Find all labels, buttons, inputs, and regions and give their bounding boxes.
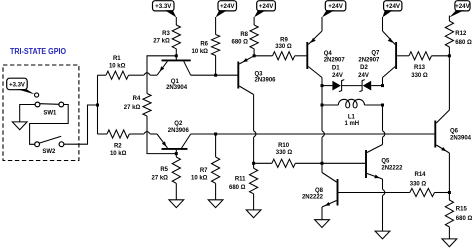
resistor R6 [212,35,220,56]
svg-text:R8: R8 [240,32,248,38]
node R6 bottom junction [214,74,217,77]
wire D2 anode [371,85,382,87]
wire R15 bottom [448,227,450,239]
wire Q3 collector down to R10 node (hops W2) [253,95,255,131]
wire right rail L1 to Q5 collector (hops W2) [382,105,384,131]
resistor R10 [272,159,295,167]
svg-text:2N3904: 2N3904 [450,135,472,141]
wire Q5 emitter to ground (hops R14 wire) [382,179,384,189]
svg-text:10 kΩ: 10 kΩ [191,176,208,182]
svg-text:+24V: +24V [259,3,274,10]
wire left rail D1 to L1 [321,86,323,105]
svg-text:+24V: +24V [328,3,343,10]
resistor R15 [445,200,453,227]
node Q6 emitter junction [448,191,451,194]
svg-text:Q2: Q2 [174,121,183,127]
svg-text:R6: R6 [200,41,208,47]
node L1 left junction [321,104,324,107]
svg-text:D1: D1 [332,66,340,72]
wire L1 right [365,104,383,106]
transistor Q1 bar [162,59,191,61]
wire +24V to R8 [253,17,255,25]
transistor Q2 base lead [175,150,177,154]
svg-text:+24V: +24V [455,3,470,10]
svg-text:R7: R7 [200,168,208,174]
wire left rail L1 to R10 node (hops W2) [321,105,323,131]
wire Q8 emitter to ground [321,207,323,220]
transistor Q2 emitter [157,134,168,148]
wire Q6 emitter down [448,153,450,193]
svg-text:680 Ω: 680 Ω [232,39,249,45]
transistor Q7 collector [383,67,396,78]
wire +24V to Q4 emitter [321,17,323,31]
resistor R8 [250,25,258,49]
wire R10 right [295,162,322,164]
wire R12 bottom [448,47,450,56]
svg-text:2N3904: 2N3904 [166,85,188,91]
resistor R12 [445,21,453,47]
svg-text:+24V: +24V [385,3,400,10]
svg-text:2N2907: 2N2907 [358,57,380,63]
wire R9 right to Q4 base [295,55,307,57]
ground (Q8) [315,220,330,228]
wire D1 anode [322,85,332,87]
node D2 anode junction [381,84,384,87]
svg-text:R1: R1 [113,56,121,62]
wire SW1 left to ground [20,105,35,122]
transistor Q8 bar [337,179,339,206]
svg-text:R14: R14 [414,172,426,178]
svg-text:R3: R3 [162,31,170,37]
transistor Q8 collector [322,173,337,183]
svg-text:R9: R9 [280,38,288,44]
svg-text:SW1: SW1 [43,110,57,116]
transistor Q4 bar [306,42,308,69]
power flag +24V (R12) [455,1,470,11]
ground (R15) [442,239,457,247]
transistor Q1 collector [184,61,191,75]
ground (Q5) [375,231,390,239]
svg-text:24V: 24V [332,73,343,79]
wire R7 top [215,134,217,157]
switch SW1 right contact circle [59,102,64,107]
svg-text:R4: R4 [133,96,141,102]
node R7 top junction [214,133,217,136]
wire R3 bottom [175,49,177,56]
wire R11 top [253,163,255,168]
+3.3V terminal circle [35,93,39,97]
node Q1 base junction [175,54,178,57]
svg-text:R10: R10 [278,143,290,149]
svg-text:R13: R13 [414,65,426,71]
svg-text:TRI-STATE GPIO: TRI-STATE GPIO [10,47,66,56]
wire R10 left [254,162,272,164]
svg-text:+3.3V: +3.3V [9,82,25,88]
ground (GPIO) [12,122,27,130]
wire R4 top to Q1 base junction [147,56,176,94]
svg-text:R15: R15 [456,207,468,213]
transistor Q8 emitter [322,201,337,208]
resistor R2 [107,130,129,138]
svg-text:2N2222: 2N2222 [302,194,324,200]
svg-text:SW2: SW2 [42,149,56,155]
transistor Q7 emitter [383,31,396,45]
svg-text:2N2222: 2N2222 [381,165,403,171]
resistor R11 [250,168,258,194]
wire R7 bottom [215,183,217,200]
resistor R7 [212,157,220,183]
svg-text:R5: R5 [160,167,168,173]
wire D1 cathode to D2 cathode [342,85,363,87]
svg-text:27 kΩ: 27 kΩ [152,176,169,182]
node D1 anode junction [321,84,324,87]
wire R8 bottom [253,49,255,56]
svg-text:D2: D2 [360,65,368,71]
switch SW1 lever (closed) [40,103,59,106]
wire R1 left [98,74,107,76]
wire R13 right [432,55,450,57]
wire R6 bottom [215,56,217,76]
node R12 bottom junction [448,54,451,57]
transistor Q5 bar [365,150,367,178]
svg-text:24V: 24V [358,73,369,79]
svg-text:330 Ω: 330 Ω [410,181,427,187]
wire left rail to Q8 collector [321,163,323,172]
power flag +3.3V [153,1,175,11]
wire R11 bottom [253,194,255,210]
svg-text:R2: R2 [114,144,122,150]
power flag +24V (Q7) [384,1,402,11]
resistor R9 [273,52,295,60]
node Q3 emitter junction [253,54,256,57]
wire Q8 base to R14 [339,192,410,194]
ground (R7) [208,200,223,208]
power flag +24V (R8) [257,1,276,11]
transistor Q3 bar [237,62,239,89]
svg-text:1 mH: 1 mH [344,121,359,127]
transistor Q6 bar [434,121,436,148]
wire SW2 right to GPIO node [64,105,98,144]
switch SW2 right contact circle [59,142,64,147]
wire R5 top [175,154,177,157]
transistor Q1 emitter [157,61,168,75]
switch SW1 left contact circle [35,102,40,107]
power flag +24V (R6) [218,1,237,11]
transistor Q5 emitter [367,174,383,180]
node Q2 base junction [175,152,178,155]
svg-text:10 kΩ: 10 kΩ [109,63,126,69]
wire +24V to R6 [215,17,217,35]
diode D2 (24V zener) [363,81,372,91]
wire +3.3V to R3 [175,17,177,25]
svg-text:Q8: Q8 [315,188,324,194]
wire R9 left [254,55,272,57]
wire R5 bottom [175,183,177,200]
wire R4 bottom to Q2 base junction [147,116,176,154]
svg-text:+24V: +24V [220,3,235,10]
wire Q5 base [322,162,365,164]
svg-text:27 kΩ: 27 kΩ [124,105,141,111]
tri-state gpio block dashed border [3,65,79,161]
resistor R1 [106,71,129,79]
wire left rail R1-R2 [97,75,99,134]
svg-text:Q7: Q7 [371,51,380,57]
svg-text:330 Ω: 330 Ω [275,44,292,50]
transistor Q5 collector [367,145,383,153]
node L1 right junction [381,104,384,107]
svg-text:10 kΩ: 10 kΩ [110,151,127,157]
node R10 left junction [252,162,255,165]
svg-text:330 Ω: 330 Ω [276,150,293,156]
resistor R5 [172,157,180,183]
resistor R14 [410,188,435,196]
svg-text:27 kΩ: 27 kΩ [153,38,170,44]
svg-text:Q5: Q5 [381,159,390,165]
svg-text:R11: R11 [235,177,246,183]
transistor Q1 base lead [175,56,177,60]
resistor R13 [409,52,432,60]
node Q5 base junction [321,162,324,165]
wire Q1 collector to Q3 base [191,74,238,76]
wire R2 right to Q2 emitter (hops R4 rail) [129,133,144,135]
svg-text:2N3906: 2N3906 [255,78,277,84]
transistor Q6 emitter [436,145,449,153]
transistor Q2 bar [162,148,188,150]
wire R1 right to Q1 emitter (hops R4 rail) [129,74,144,76]
svg-text:+3.3V: +3.3V [155,3,172,10]
resistor R4 [143,94,151,117]
wire Q2 collector to Q6 base [191,133,435,135]
transistor Q3 emitter [239,56,254,64]
wire SW1 right to SW2 left [30,105,69,145]
switch SW2 left contact circle [35,142,40,147]
+3.3V callout flag [7,78,28,90]
wire Q4 collector to D1 node [321,78,323,86]
wire L1 left [322,104,338,106]
svg-text:Q6: Q6 [450,129,459,135]
svg-text:R12: R12 [455,31,467,37]
inductor L1 [338,99,364,108]
transistor Q6 collector [436,110,449,123]
svg-text:10 kΩ: 10 kΩ [192,49,209,55]
power flag +24V (Q4) [325,1,346,11]
transistor Q2 collector [182,134,191,148]
transistor Q3 collector [239,86,253,95]
wire R2 left [98,133,108,135]
svg-text:2N3906: 2N3906 [168,128,190,134]
svg-text:Q4: Q4 [324,51,333,57]
wire R15 top [448,193,450,201]
wire +24V to Q7 emitter [382,17,384,31]
svg-text:680 Ω: 680 Ω [456,216,473,222]
wire +24V to R12 [448,16,450,22]
ground (R5) [169,200,184,208]
transistor Q4 emitter [308,31,322,45]
transistor Q4 collector [308,67,322,78]
switch SW2 lever (open) [39,136,61,143]
wire Q7 collector to D2 node [382,78,384,86]
svg-text:L1: L1 [348,115,356,121]
resistor R3 [172,25,180,49]
diode D1 (24V zener) [332,81,341,91]
wire R14 right [435,192,450,194]
svg-text:680 Ω: 680 Ω [455,40,472,46]
svg-text:680 Ω: 680 Ω [229,185,246,191]
wire R12 node to Q6 collector [448,56,450,110]
svg-text:330 Ω: 330 Ω [411,73,428,79]
transistor Q7 bar [395,42,397,69]
svg-text:2N2907: 2N2907 [324,57,346,63]
node GPIO junction [96,104,99,107]
ground (R11) [246,210,261,218]
wire Q7 base to R13 [397,55,409,57]
